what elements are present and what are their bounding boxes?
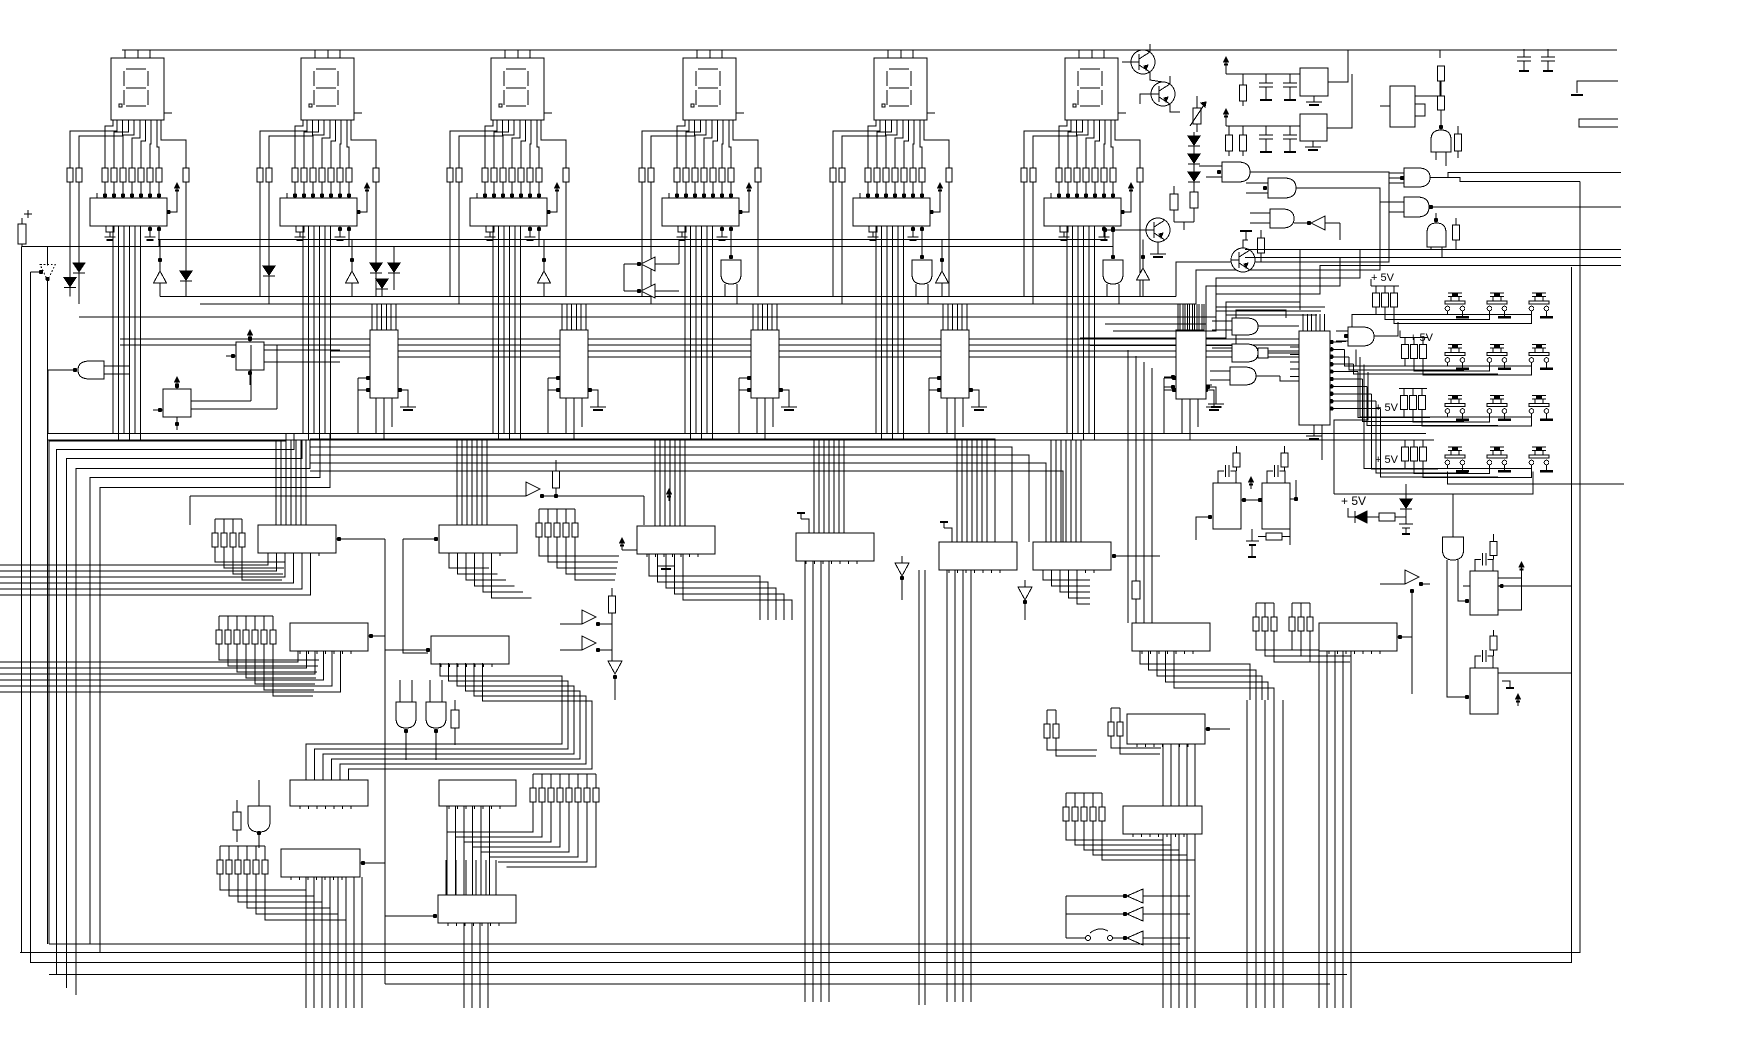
latch IC U21 (439, 525, 517, 553)
wire U29 out (1398, 635, 1402, 639)
driver IC U4 (662, 198, 739, 226)
nand G14 up (1431, 130, 1451, 152)
wire U42 bottom (1181, 399, 1183, 434)
driver IC U1 (90, 198, 167, 226)
nand G18 (1232, 318, 1258, 335)
wire loop L4 (76, 440, 310, 995)
U41 right pins (1329, 340, 1333, 344)
ground U10 (407, 403, 409, 407)
ground Y1 (1313, 96, 1315, 102)
resistor group RG-G (216, 630, 222, 644)
button S10 (1448, 446, 1462, 448)
counter U14 side pins (1172, 376, 1176, 380)
button S6 (1532, 344, 1546, 346)
wire right h1 (1245, 248, 1621, 250)
resistor R19 (1490, 542, 1497, 556)
U44 crystal (1475, 656, 1481, 668)
svg-text:+ 5V: + 5V (1375, 402, 1399, 414)
wire RN1 side leads (69, 182, 71, 296)
resistor R11 (1170, 194, 1178, 210)
wire Q1 (1142, 49, 1144, 51)
flipflop FF2 (163, 389, 191, 417)
ground U6 pin8 (1060, 226, 1068, 232)
wire U34 bottom fan (305, 877, 307, 1008)
button S3 (1532, 292, 1546, 294)
wire stair1 (1176, 173, 1404, 296)
nand G22 down (1443, 537, 1464, 560)
resistor R81 (451, 710, 459, 728)
wire supply join (21, 246, 1113, 248)
resistor group RG-J2 (1289, 617, 1295, 631)
resistor group RG-O leads (220, 874, 306, 890)
7-segment display DS6 (1065, 58, 1118, 120)
wire display5 segment leads (833, 120, 880, 168)
wire bottom bus4 (49, 974, 1347, 976)
latch IC U33 (1123, 806, 1202, 834)
wire U2 out (347, 227, 351, 231)
buffer B5 up (936, 271, 949, 283)
flipflop FF1 (236, 342, 264, 370)
nand G10 down (248, 806, 270, 832)
buffer B7 (526, 482, 540, 496)
wire U1 out (157, 227, 161, 231)
wire display3 top pins (504, 50, 506, 58)
latch IC U31 (290, 780, 368, 806)
wire display5 top pins (887, 50, 889, 58)
inverter V1 down (40, 265, 55, 281)
ground U4 pin12 (720, 227, 724, 231)
wire bottom bus5 (385, 983, 1330, 985)
ground U2 pin12 (338, 227, 342, 231)
svg-text:+ 5V: + 5V (1341, 494, 1366, 508)
wire U23 top pins (813, 440, 815, 533)
nand G17 up (1427, 223, 1446, 247)
wire U25 top pins (1050, 440, 1052, 542)
wire top supply bus (122, 49, 1617, 51)
IC U44 (1470, 668, 1498, 714)
latch IC U20 (258, 525, 336, 553)
transistor Q1 (1131, 50, 1155, 74)
gnd stub Q3 (1243, 240, 1248, 248)
wire U24 bottom fan (946, 570, 948, 1002)
button S9 (1532, 395, 1546, 397)
diode D4 (263, 266, 275, 275)
buffer B1 up (154, 271, 167, 283)
wire display4 segment leads (642, 120, 689, 168)
diode D3 (180, 271, 192, 280)
wire right h2 (1245, 256, 1621, 258)
capacitor C3 (1259, 134, 1273, 136)
counter IC U11 (560, 330, 588, 398)
diode D6 (388, 263, 400, 272)
nand G12 (1268, 178, 1296, 198)
resistor R20 (1490, 636, 1497, 650)
ground Q4 (1157, 242, 1159, 254)
wire stair2 (1196, 202, 1404, 304)
connector J1 (1577, 81, 1618, 93)
counter IC U12 (751, 330, 779, 398)
nand G4 down (721, 260, 741, 284)
resistor R-supply (18, 224, 26, 244)
IC U40 (1390, 86, 1415, 127)
U43 crystal (1475, 559, 1481, 571)
resistor group row1 (1371, 285, 1399, 287)
buffer B2 up (346, 271, 359, 283)
resistor group RG-I2 leads (1111, 736, 1161, 748)
wire U33 bottom fan (1162, 834, 1164, 860)
wire osc2 top (1225, 121, 1227, 126)
nand G9 down (426, 702, 446, 728)
wire RN1 to driver (104, 182, 106, 198)
wire counter2 bottom (565, 398, 567, 434)
resistor group RG-G leads (219, 644, 319, 660)
wire U29 bottom fan (1318, 651, 1320, 1008)
resistor group RG-A (212, 533, 218, 547)
wire counter5 bottom (1181, 398, 1183, 434)
latch IC U27 (431, 636, 509, 664)
ground U2 pin8 (296, 226, 304, 232)
wire btn bottom bus2 (1334, 472, 1533, 495)
wire osc1 top (1225, 69, 1227, 74)
resistor network RN2 (257, 168, 263, 182)
nand G5 down (912, 260, 932, 284)
wire U40 (1415, 66, 1440, 96)
wire R16chain (1440, 110, 1442, 127)
inverter V6 down (608, 661, 622, 674)
resistor R70 (553, 471, 560, 488)
resistor group RG-I2 (1108, 722, 1114, 736)
wire row1 bus (1447, 311, 1449, 315)
inverter V4 down (895, 563, 909, 576)
ground U11 (597, 403, 599, 407)
latch IC U28 (1132, 623, 1210, 651)
clock arrow U3 (547, 189, 557, 212)
capacitor C7 (1399, 523, 1413, 525)
diode D7 (376, 279, 388, 288)
clock arrow U2 (357, 189, 367, 212)
resistor group RG-L leads (447, 802, 533, 832)
resistor group RG-I1 leads (1047, 738, 1097, 750)
latch IC U26 (290, 623, 368, 651)
7-segment display DS1 (111, 58, 164, 120)
wire U26 out (369, 634, 373, 638)
wire display4 top pins (696, 50, 698, 58)
clock arrow U1 (167, 189, 177, 212)
wire U32 bottom fan (446, 806, 448, 895)
wire U4 out (729, 227, 733, 231)
wire loop L1 (49, 434, 286, 945)
wire stair5 (1113, 265, 1572, 331)
wire loop L3 (67, 440, 303, 988)
wire band bus1 (158, 239, 1105, 241)
wire U27 in (426, 648, 430, 652)
resistor R21 (1233, 453, 1240, 467)
wire display2 top pins (314, 50, 316, 58)
button S11 (1490, 446, 1504, 448)
driver IC U6 (1044, 198, 1121, 226)
wire loop L6 (100, 434, 330, 953)
buffer B8 (582, 610, 596, 624)
wire RN3 side leads (449, 182, 451, 296)
ground U14 (1213, 403, 1215, 407)
wire RN4 to driver (676, 182, 678, 198)
IC U42 small (1176, 331, 1206, 399)
wire counter2 top pins (561, 304, 563, 330)
resistor network RN4 (639, 168, 645, 182)
button S2 (1490, 292, 1504, 294)
resistor network RN1 (67, 168, 73, 182)
ground U3 pin12 (528, 227, 532, 231)
latch IC U30 (1127, 714, 1205, 744)
button S8 (1490, 395, 1504, 397)
inverter V8 left (1127, 907, 1143, 921)
ground U13 (978, 403, 980, 407)
capacitor C2 (1283, 82, 1297, 84)
wire display1 segment leads (70, 120, 117, 168)
trimmer RV1 (1193, 108, 1201, 124)
wire U30 out (1206, 727, 1210, 731)
nand G6 down (1103, 260, 1123, 284)
latch IC U35 (438, 895, 516, 923)
capacitor C6 (1547, 49, 1549, 57)
U43 right loop (1498, 578, 1522, 610)
wire mid bus2 (48, 439, 1434, 441)
resistor R17 (1453, 225, 1460, 240)
wire counter4 top pins (942, 304, 944, 330)
wire stair3 (1216, 249, 1360, 316)
latch IC U23 (796, 533, 874, 561)
resistor group RG-M leads (1066, 821, 1163, 840)
diode D14 (1400, 499, 1412, 508)
wire U21 in (434, 537, 438, 541)
wire btn row3 left (1360, 357, 1404, 417)
nand G13 (1270, 209, 1294, 228)
wire left rail A (20, 247, 22, 953)
ground U5 pin8 (869, 226, 877, 232)
clock arrow U22 (620, 538, 625, 543)
wire row4 bus (1447, 465, 1449, 469)
buffer B6 up (1137, 268, 1150, 280)
wire U35 top pins (445, 860, 447, 895)
diode D13 (1348, 508, 1355, 517)
wire right h3 (1572, 264, 1622, 266)
wire band bus3 (160, 295, 1176, 297)
resistor group RG-O (217, 860, 223, 874)
wire stair8 (1206, 310, 1212, 385)
wire U35 in (433, 914, 437, 918)
wire U41 top bundle (1302, 314, 1304, 331)
resistor group RG-B leads (539, 537, 619, 556)
resistor R16 (1455, 134, 1462, 151)
counter IC U10 (370, 330, 398, 398)
U41 left pins (1290, 346, 1299, 348)
wire RN6 to driver (1058, 182, 1060, 198)
7-segment display DS3 (491, 58, 544, 120)
resistor group row4 (1400, 439, 1428, 441)
7-segment display DS5 (874, 58, 927, 120)
resistor R14 (1240, 135, 1247, 151)
nand G19 (1232, 344, 1258, 362)
wire U35 bottom fan (463, 923, 465, 1008)
wire RN5 to driver (867, 182, 869, 198)
wire btn row2 left (1356, 350, 1405, 367)
ground U5 pin12 (911, 227, 915, 231)
svg-text:+ 5V: + 5V (1371, 272, 1395, 284)
wire stair6 (1080, 302, 1300, 338)
transistor Q3 (1231, 248, 1255, 272)
wire U5 bus down (875, 226, 877, 434)
counter U10 side pins (366, 376, 370, 380)
wire U30 bottom fan (1162, 744, 1164, 1008)
ground Y2 (1312, 141, 1314, 147)
resistor group RG-B (536, 523, 542, 537)
wire RN3 to driver (484, 182, 486, 198)
counter IC U14 (1176, 330, 1204, 398)
wire U26 bottom fan (0, 651, 298, 662)
counter U13 side pins (937, 376, 941, 380)
wire display3 segment leads (450, 120, 497, 168)
inverter V3 left (641, 284, 655, 298)
wire counter1 bottom (375, 398, 377, 434)
wire U25 bottom fan (1043, 570, 1090, 580)
gnd stub U24 (944, 528, 952, 542)
IC U46 (1262, 483, 1290, 529)
wire loop L2 (56, 434, 294, 975)
nand G7 left (78, 361, 104, 379)
buffer B10 (1405, 570, 1419, 584)
resistor network RN3 (447, 168, 453, 182)
U45 crystal (1218, 471, 1224, 483)
transistor Q4 (1146, 218, 1170, 242)
resistor group RG-L (530, 788, 536, 802)
wire U6 bus down (1066, 226, 1068, 434)
wire U5 out (920, 227, 924, 231)
wire U42 top (1179, 304, 1181, 331)
wire counter4 bottom (946, 398, 948, 434)
wire stair4 (1105, 257, 1340, 324)
diode chain D12 (1188, 172, 1200, 181)
wire bottom bus3 (30, 267, 1572, 963)
7-segment display DS2 (301, 58, 354, 120)
inverter V5 down (1018, 587, 1032, 600)
wire display6 segment leads (1024, 120, 1071, 168)
ground U1 pin8 (106, 226, 114, 232)
wire RN6 side leads (1023, 182, 1025, 296)
ground U1 pin12 (148, 227, 152, 231)
wire RN2 to driver (294, 182, 296, 198)
wire bundle mid-right (1246, 700, 1248, 1008)
wire btn row1 left (1352, 315, 1376, 343)
capacitor C1 (1259, 82, 1273, 84)
wire U20 top pins (275, 440, 277, 525)
nand G16 (1404, 197, 1429, 217)
wire row3 bus (1447, 413, 1449, 417)
wire U23 bottom fan (804, 561, 806, 1002)
capacitor C8 (1251, 529, 1253, 541)
arrow osc2 (1224, 109, 1229, 114)
nand G11 (1222, 162, 1250, 182)
wire U6 out (1111, 227, 1115, 231)
U42 pins (1171, 375, 1175, 379)
wire U27 bottom fan (306, 663, 562, 780)
resistor R13 (1226, 135, 1233, 151)
wire U22 bottom fan (649, 554, 760, 620)
arrow osc1 (1224, 57, 1229, 62)
gnd stub U23 (801, 519, 809, 533)
IC U41 tall (1299, 331, 1330, 425)
diode chain D10 (1188, 136, 1200, 145)
resistor R18 (1379, 513, 1395, 521)
button S7 (1448, 395, 1462, 397)
capacitor C5 (1523, 49, 1525, 57)
button S1 (1448, 292, 1462, 294)
wire U45-U46 (1242, 498, 1246, 502)
resistor R23 (1266, 533, 1282, 540)
wire RN5 side leads (832, 182, 834, 296)
wire Y2 right (1327, 74, 1352, 128)
wire counter1 top pins (371, 304, 373, 330)
wire stair7 (1090, 310, 1286, 346)
wire pair mid (918, 570, 920, 1005)
ground U3 pin8 (486, 226, 494, 232)
wire left rail B (29, 272, 31, 963)
connector J2 (1579, 119, 1618, 127)
driver IC U5 (853, 198, 930, 226)
wire U21 bottom fan (449, 556, 489, 568)
ground U12 (788, 403, 790, 407)
svg-text:+ 5V: + 5V (1375, 454, 1399, 466)
wire U2 bus down (302, 226, 304, 434)
crystal Y2 (1300, 114, 1327, 141)
wire row2 bus (1447, 362, 1449, 366)
nand G8 down (396, 702, 416, 728)
driver IC U2 (280, 198, 357, 226)
resistor R82 (1132, 581, 1140, 599)
ground U22 (665, 554, 667, 566)
nand G20 (1230, 367, 1256, 385)
wire counter bus b (120, 344, 1299, 346)
wire btn bottom bus1 (1448, 472, 1625, 485)
inverter V10 left (1311, 216, 1325, 230)
clock arrow U5 (930, 189, 940, 212)
buffer B3 up (538, 271, 551, 283)
IC U45 (1213, 483, 1241, 529)
crystal Y1 (1300, 68, 1328, 96)
wire counter bus c (330, 350, 1299, 352)
counter U11 side pins (556, 376, 560, 380)
wire B7 left (189, 496, 191, 525)
nand G15 (1404, 168, 1430, 187)
U46 crystal (1267, 471, 1273, 483)
wire B8 join (611, 624, 613, 661)
resistor group row2 (1400, 337, 1428, 339)
resistor group RG-J1 leads (1256, 631, 1316, 650)
wire counter5 top pins (1177, 304, 1179, 330)
wire btn bottom bus3 (1334, 372, 1368, 494)
resistor R80 (609, 596, 616, 613)
wire U20 out (337, 537, 341, 541)
IC U43 (1470, 571, 1498, 615)
resistor group RG-J1 (1253, 617, 1259, 631)
latch IC U29 (1319, 623, 1397, 651)
ground U6 pin12 (1102, 227, 1106, 231)
wire U25 out (1112, 554, 1116, 558)
wire U28 bottom fan (1140, 651, 1250, 700)
inverter V9 left (1127, 931, 1143, 945)
wire counter3 top pins (752, 304, 754, 330)
buffer B9 (582, 636, 596, 650)
wire U3 out (537, 227, 541, 231)
